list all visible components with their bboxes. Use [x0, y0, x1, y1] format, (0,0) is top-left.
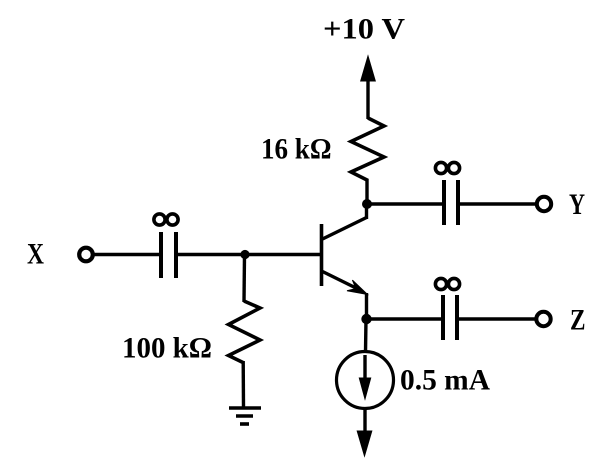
capacitor C3 infinity	[435, 278, 459, 340]
capacitor C2 infinity	[435, 162, 459, 225]
resistor R2 100 kΩ	[229, 301, 261, 363]
terminal X	[79, 248, 93, 262]
wire resistor R2 to ground	[241, 361, 245, 407]
wire resistor R1 bottom to collector node	[365, 179, 368, 204]
wire collector node to capacitor C2	[367, 202, 443, 205]
node collector junction dot	[362, 199, 372, 209]
terminal Y	[537, 197, 551, 211]
power arrow to +10 V	[361, 56, 376, 119]
wire capacitor C3 to terminal Z	[459, 317, 535, 320]
node base junction dot	[240, 250, 249, 259]
terminal Z	[536, 312, 550, 326]
wire base node down to resistor R2	[242, 255, 246, 303]
wire capacitor C2 to terminal Y	[460, 202, 536, 205]
svg-text:Z: Z	[570, 304, 586, 337]
svg-text:100 kΩ: 100 kΩ	[122, 332, 212, 365]
svg-text:16 kΩ: 16 kΩ	[261, 133, 332, 166]
wire current source I1 to bottom arrow	[363, 409, 366, 435]
svg-text:Y: Y	[569, 188, 585, 221]
arrow to negative supply	[357, 431, 372, 456]
capacitor C1 infinity	[154, 214, 178, 278]
transistor Q1	[322, 204, 368, 319]
wire X terminal to capacitor C1	[95, 253, 160, 256]
svg-text:0.5 mA: 0.5 mA	[400, 364, 490, 397]
wire emitter node to capacitor C3	[367, 317, 442, 320]
svg-text:X: X	[27, 238, 44, 271]
wire emitter node to current source I1	[364, 319, 368, 352]
node emitter junction dot	[361, 314, 371, 324]
resistor R1 16 kΩ	[351, 118, 384, 181]
svg-text:+10 V: +10 V	[323, 13, 405, 46]
ground	[229, 408, 261, 424]
current source I1	[337, 352, 394, 409]
wire capacitor C1 to base	[178, 253, 320, 256]
